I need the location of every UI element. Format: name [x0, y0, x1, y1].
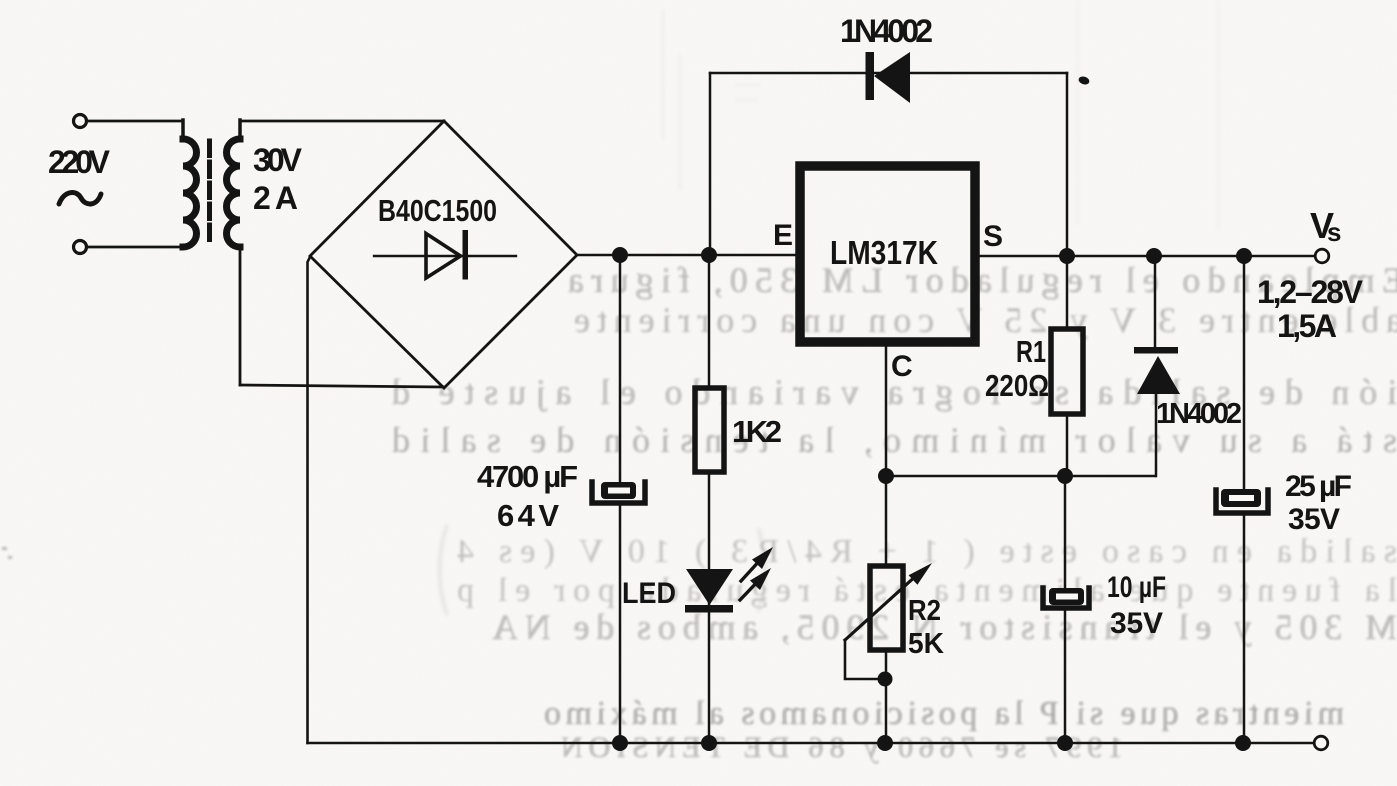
capacitor C1 4700uF symbol	[592, 482, 645, 503]
node: R2 bottom junction	[878, 672, 893, 687]
regulator U1 LM317K box	[800, 166, 975, 342]
node: rail x=1154	[1146, 248, 1162, 264]
bridge diode symbol	[426, 234, 461, 279]
capacitor C2 10uF symbol	[1043, 588, 1089, 608]
svg-text:30V: 30V	[253, 142, 303, 178]
svg-text:LM317K: LM317K	[830, 234, 938, 271]
LED cathode bar	[685, 605, 733, 613]
diode D2 1N4002 (vertical, pointing up) cathode bar	[1134, 347, 1178, 354]
node: bottom rail x=709	[701, 735, 717, 751]
stray pen mark	[1078, 75, 1091, 86]
wire: LED branch vertical	[708, 255, 711, 743]
svg-text:10 µF: 10 µF	[1107, 571, 1166, 604]
svg-text:C: C	[891, 350, 913, 383]
svg-text:2 A: 2 A	[253, 180, 298, 216]
capacitor C3 25uF symbol	[1216, 489, 1268, 513]
svg-text:64V: 64V	[497, 498, 559, 533]
svg-text:S: S	[983, 220, 1003, 253]
wire: bridge left vertex down to bottom rail	[308, 257, 311, 743]
svg-text:E: E	[773, 219, 793, 252]
faint big parens of formula	[440, 525, 766, 615]
LED D3 triangle	[686, 569, 733, 605]
svg-text:1N4002: 1N4002	[840, 13, 933, 49]
LED arrow 1 shaft	[741, 558, 762, 581]
wire: right diode branch vertical	[1155, 256, 1156, 476]
wire: 10uF branch vertical	[1064, 476, 1067, 743]
node: bottom rail x=885	[877, 735, 893, 751]
node: rail x=1067	[1059, 248, 1075, 264]
wire: top bypass right vertical	[1066, 73, 1069, 256]
LED arrow 1 head	[752, 547, 773, 569]
LED arrow 2 head	[750, 568, 771, 590]
node: R1 bottom junction	[1057, 468, 1073, 484]
svg-text:5K: 5K	[908, 628, 944, 660]
main positive rail: bridge right vertex to LM317 E	[577, 254, 797, 257]
wire: R1 leads	[1066, 256, 1069, 476]
node: rail x=1244	[1236, 248, 1252, 264]
diode D2 triangle	[1137, 356, 1180, 394]
wire: top bypass left vertical	[709, 73, 712, 255]
output terminal bottom	[1314, 736, 1328, 750]
svg-text:25 µF: 25 µF	[1285, 470, 1352, 503]
svg-text:220V: 220V	[48, 144, 111, 180]
resistor R1 body	[1051, 329, 1083, 414]
wire: R2 bottom lead to bottom rail	[885, 650, 888, 743]
wire: C junction horizontal to right	[886, 475, 1155, 478]
wire: bottom terminal to primary	[87, 246, 183, 249]
transformer T1 primary winding	[183, 139, 197, 247]
diode D1 triangle	[874, 52, 910, 103]
R2 wiper hook to bottom terminal	[845, 640, 877, 679]
svg-text:R1: R1	[1016, 334, 1046, 369]
wire: 25uF branch vertical	[1243, 256, 1246, 743]
svg-text:1997 se 7660 y 86 DE TENSION: 1997 se 7660 y 86 DE TENSION	[561, 731, 1123, 764]
LED arrow 2 shaft	[740, 578, 761, 600]
svg-text:1,2–28V: 1,2–28V	[1257, 274, 1364, 310]
output terminal Vs top	[1315, 249, 1329, 263]
transformer T1 secondary winding	[227, 139, 240, 247]
bottom rail	[308, 742, 1315, 745]
svg-text:220Ω: 220Ω	[985, 368, 1049, 403]
svg-text:1N4002: 1N4002	[1156, 398, 1242, 430]
node: bottom rail x=620	[612, 735, 628, 751]
transformer core	[207, 141, 212, 246]
svg-text:35V: 35V	[1110, 607, 1163, 640]
resistor R2 (potentiometer) body	[870, 566, 903, 650]
bridge rectifier B40C1500 diamond	[310, 121, 577, 388]
wire: top terminal to primary	[87, 120, 183, 123]
svg-text:s: s	[1327, 217, 1341, 247]
input terminal bottom	[74, 241, 87, 254]
small specks left edge	[2, 547, 12, 559]
input terminal top	[74, 115, 87, 128]
AC tilde symbol	[59, 192, 101, 204]
node: rail x=709	[701, 247, 717, 263]
LABELS GROUP	[48, 13, 1364, 660]
node: bottom rail x=1243	[1235, 735, 1251, 751]
faint figure bleed top right	[1078, 0, 1218, 230]
R2 wiper arrow shaft	[845, 574, 918, 640]
faint figure bleed left of LM317	[663, 10, 760, 190]
svg-text:mientras que si P la posiciona: mientras que si P la posicionamos al máx…	[544, 695, 1344, 732]
svg-text:LED: LED	[622, 577, 676, 610]
wire: top bypass horizontal	[710, 72, 1067, 75]
wire: secondary bottom lead down	[239, 246, 242, 385]
R2 wiper arrowhead	[909, 563, 932, 585]
node: C junction	[878, 468, 894, 484]
svg-text:R2: R2	[908, 595, 941, 627]
bridge inner wire	[374, 255, 516, 257]
node: bottom rail x=1065	[1057, 735, 1073, 751]
wire: secondary bottom to bridge bottom vertex	[240, 385, 444, 387]
main positive rail: LM317 S to output terminal	[978, 255, 1314, 258]
wire: secondary top to bridge top vertex	[240, 120, 444, 123]
resistor R3 1K2 body	[695, 388, 724, 472]
svg-text:B40C1500: B40C1500	[378, 193, 497, 228]
svg-text:35V: 35V	[1288, 503, 1340, 536]
svg-text:1K2: 1K2	[732, 414, 782, 449]
diode D1 1N4002 (top, pointing left) cathode bar	[866, 52, 875, 100]
wire: C pin vertical	[885, 347, 888, 566]
svg-text:1,5A: 1,5A	[1277, 308, 1337, 344]
svg-text:4700 µF: 4700 µF	[477, 459, 578, 494]
wire: 4700uF branch vertical	[619, 255, 622, 743]
node: rail x=620	[612, 247, 628, 263]
